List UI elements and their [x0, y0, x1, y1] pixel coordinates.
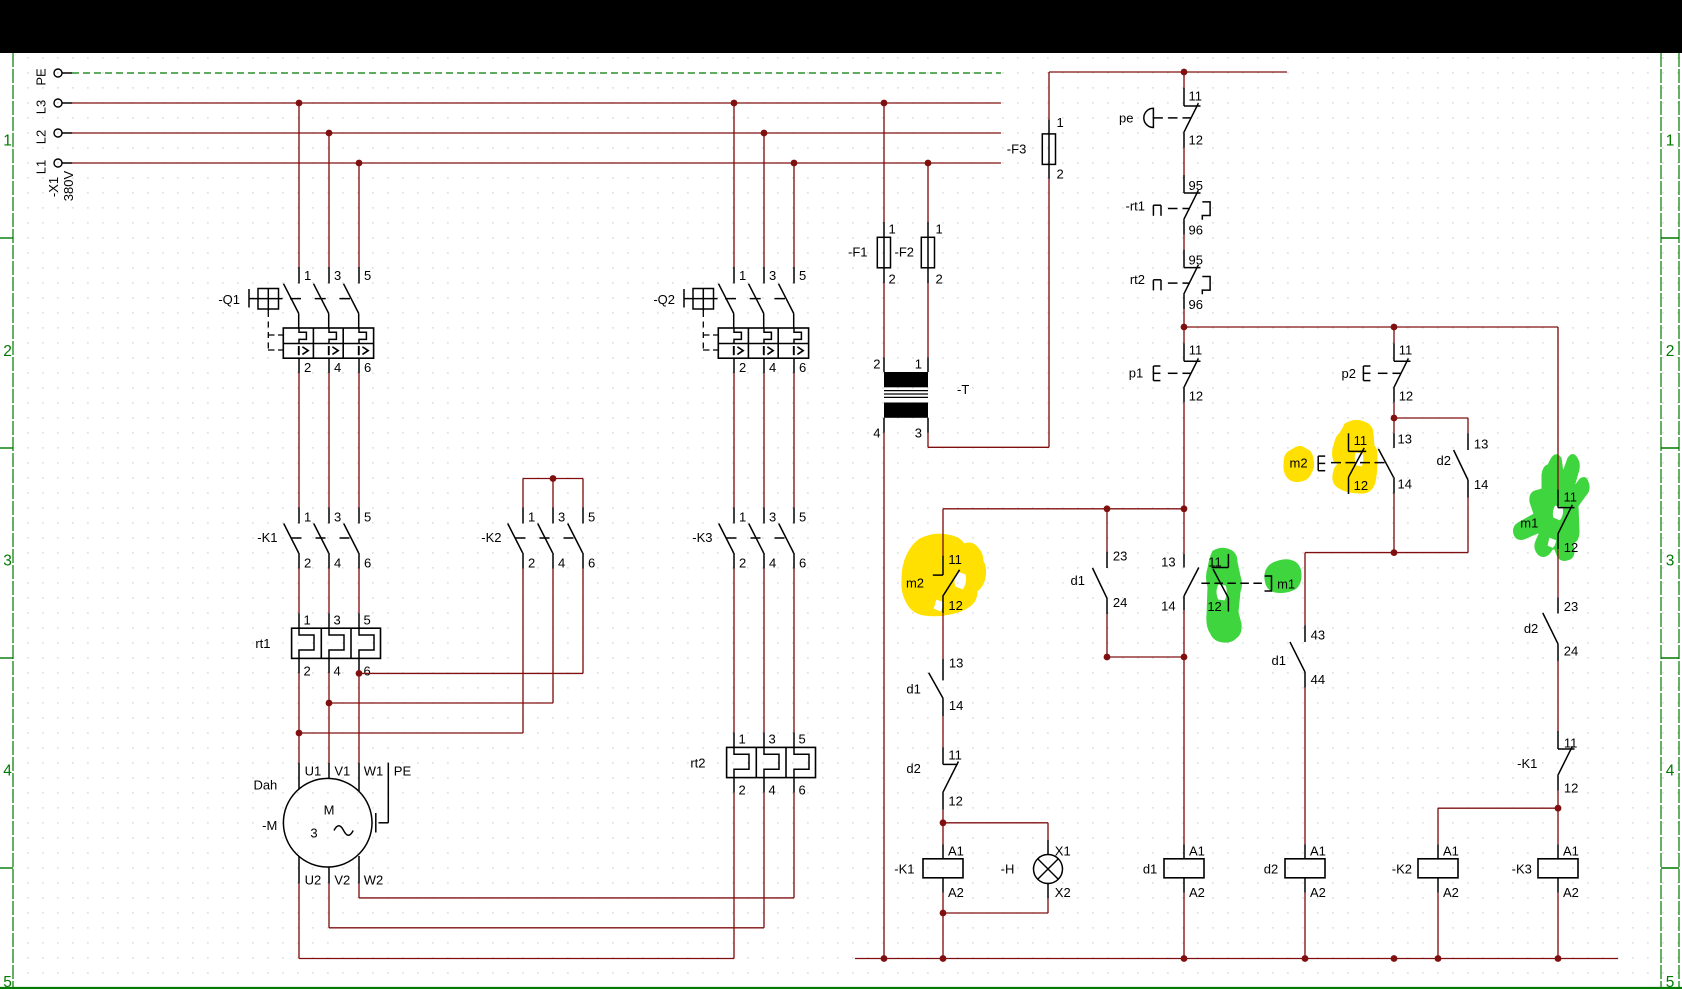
- contactor -K1 linkage (dashed): [292, 537, 352, 539]
- svg-text:W1: W1: [364, 764, 384, 779]
- svg-text:3: 3: [334, 268, 341, 283]
- svg-text:4: 4: [334, 556, 341, 571]
- breaker -Q2 thermal element: [764, 328, 771, 344]
- wire V2 to rt2-4: [328, 884, 330, 928]
- svg-text:PE: PE: [34, 68, 49, 86]
- contactor -K3 main contact 1-2: [733, 508, 735, 524]
- svg-text:1: 1: [1666, 132, 1675, 149]
- overload rt1 heater element pole 1-2: [298, 613, 300, 628]
- m2 linkage dashes: [1331, 462, 1386, 464]
- svg-text:2: 2: [304, 556, 311, 571]
- node m2-14 / d2-14: [1391, 549, 1398, 556]
- svg-text:13: 13: [1398, 432, 1412, 447]
- breaker -Q1 pole contact 5-6: [358, 267, 360, 284]
- breaker -Q1 trip linkage (dash-dot): [267, 311, 269, 350]
- node K1-A1 / lamp: [940, 819, 947, 826]
- svg-text:43: 43: [1311, 627, 1325, 642]
- wire m2-14 down: [1393, 494, 1395, 553]
- right border line (green dashed): [1678, 53, 1680, 988]
- svg-text:13: 13: [1161, 555, 1175, 570]
- svg-text:5: 5: [3, 974, 12, 989]
- node rt1-6 / K2-6: [356, 670, 363, 677]
- node 0V bus x=943: [940, 955, 947, 962]
- svg-text:23: 23: [1113, 549, 1127, 564]
- svg-text:rt2: rt2: [690, 755, 705, 770]
- fuse F3: [1048, 119, 1050, 178]
- highlighter green blob over m1 label (middle area): [1265, 560, 1301, 593]
- svg-text:12: 12: [1189, 133, 1203, 148]
- node control bus / p2: [1391, 324, 1398, 331]
- breaker -Q1 pole bottom tick: [328, 358, 330, 373]
- contactor -K2 main contact 1-2: [522, 508, 524, 524]
- contactor -K2 linkage (dashed): [516, 537, 576, 539]
- breaker -Q2 pole contact 3-4: [763, 267, 765, 284]
- wire F2 to transformer: [927, 283, 929, 357]
- wire L2 to Q2 pole3: [763, 133, 765, 267]
- wire bus corner down: [1557, 327, 1559, 490]
- contactor coil -K1: [942, 845, 944, 860]
- svg-text:1: 1: [915, 357, 922, 372]
- svg-text:-K1: -K1: [1517, 756, 1537, 771]
- breaker -Q1 magnetic element I>: [328, 346, 330, 355]
- svg-text:12: 12: [948, 598, 962, 613]
- svg-text:A1: A1: [1563, 843, 1579, 858]
- wire to d1 coil: [1183, 657, 1185, 845]
- svg-text:6: 6: [799, 556, 806, 571]
- motor M circle: [283, 778, 372, 867]
- svg-text:d1: d1: [1272, 653, 1286, 668]
- wires Q1 to K1: [298, 373, 300, 508]
- svg-text:A1: A1: [1310, 843, 1326, 858]
- contactor -K1 main contact 3-4: [328, 508, 330, 524]
- left zone tick y=448: [0, 447, 13, 449]
- svg-text:44: 44: [1311, 672, 1325, 687]
- svg-text:2: 2: [3, 343, 12, 360]
- aux contact d2 NO 23-24: [1557, 597, 1559, 613]
- breaker -Q2 overload block: [718, 328, 808, 358]
- overload rt1 heater element pole 5-6: [358, 613, 360, 628]
- contactor coil -K3: [1557, 845, 1559, 860]
- svg-text:14: 14: [1398, 477, 1412, 492]
- svg-text:U1: U1: [305, 764, 322, 779]
- wire d2-24 to K1 NC: [1557, 661, 1559, 731]
- svg-text:12: 12: [1564, 540, 1578, 555]
- svg-text:1: 1: [3, 132, 12, 149]
- left zone tick y=868: [0, 867, 13, 869]
- svg-text:3: 3: [769, 732, 776, 747]
- wire to m2 NO: [1393, 418, 1395, 433]
- motor terminal W1: [358, 763, 360, 791]
- svg-text:4: 4: [1666, 763, 1675, 780]
- p1 actuator: [1152, 366, 1154, 381]
- wire K1-A2 to lamp X2: [943, 912, 1048, 914]
- rail L2: [72, 132, 1001, 134]
- left margin line (green dashed): [12, 53, 14, 988]
- selector m1 NC contact 11-12 (right, highlighted): [1557, 490, 1559, 508]
- breaker -Q2 pole bottom tick: [733, 358, 735, 373]
- wire to m1 NO: [1183, 509, 1185, 554]
- indicator lamp -H: [1047, 840, 1049, 855]
- m1 linkage dashes: [1201, 582, 1266, 584]
- terminal circle L2: [54, 129, 62, 137]
- svg-text:m2: m2: [906, 576, 924, 591]
- node K1-A2 / lamp X2: [940, 910, 947, 917]
- svg-text:1: 1: [304, 510, 311, 525]
- svg-text:A2: A2: [1443, 885, 1459, 900]
- svg-text:4: 4: [769, 556, 776, 571]
- node L2/Q2: [761, 130, 768, 137]
- breaker -Q1 operator: [248, 289, 250, 308]
- m2 actuator E: [1317, 456, 1319, 471]
- node p1/m2-branch: [1181, 505, 1188, 512]
- transformer T secondary: [884, 403, 928, 418]
- svg-text:4: 4: [334, 664, 341, 679]
- svg-text:1: 1: [739, 268, 746, 283]
- breaker -Q1 pole linkage (dashed): [290, 298, 350, 300]
- wire d1-44 to d2 coil: [1304, 688, 1306, 845]
- motor wave symbol: [334, 826, 353, 836]
- node 0V bus x=1558: [1555, 955, 1562, 962]
- node L1/Q2: [791, 160, 798, 167]
- wire d1-24 to join: [1106, 614, 1108, 657]
- svg-text:12: 12: [948, 794, 962, 809]
- wire m1-12 to d2-23: [1557, 549, 1559, 597]
- motor terminal U2: [298, 856, 300, 884]
- wire rt2-2 down: [733, 793, 735, 959]
- svg-text:-F1: -F1: [848, 245, 868, 260]
- svg-text:4: 4: [3, 763, 12, 780]
- selector m2 NC contact 11-12 (highlighted): [942, 556, 944, 576]
- svg-text:d2: d2: [1264, 862, 1278, 877]
- node L3/F1: [881, 100, 888, 107]
- svg-text:95: 95: [1189, 252, 1203, 267]
- pushbutton p2 NC contact 11-12: [1393, 343, 1395, 361]
- emergency stop pe NC contact 11-12: [1183, 88, 1185, 106]
- wire rt1 to rt2 contact: [1183, 235, 1185, 250]
- breaker -Q2 thermal element: [794, 328, 801, 344]
- svg-text:m1: m1: [1277, 577, 1295, 592]
- svg-text:96: 96: [1189, 297, 1203, 312]
- breaker -Q2 magnetic element I>: [733, 346, 735, 355]
- node 0V bus x=1394: [1391, 955, 1398, 962]
- selector m2 NO contact 13-14: [1393, 433, 1395, 448]
- svg-text:11: 11: [948, 748, 962, 763]
- svg-text:d1: d1: [906, 682, 920, 697]
- node L3/Q2: [731, 100, 738, 107]
- contactor -K3 main contact 5-6: [793, 508, 795, 524]
- contactor coil -K2: [1437, 845, 1439, 860]
- wire transformer-3 to F3: [927, 433, 929, 448]
- terminal circle L1: [54, 159, 62, 167]
- overload relay rt1 block: [292, 628, 381, 658]
- contactor coil d2: [1304, 845, 1306, 860]
- svg-text:3: 3: [769, 510, 776, 525]
- svg-text:12: 12: [1399, 389, 1413, 404]
- svg-text:2: 2: [739, 360, 746, 375]
- svg-text:2: 2: [889, 272, 896, 287]
- aux contact d1 NO 43-44: [1304, 625, 1306, 642]
- rt2 thermal actuator: [1152, 280, 1154, 291]
- wire join: [1107, 656, 1184, 658]
- svg-text:380V: 380V: [61, 170, 76, 201]
- aux contact d2 NO 13-14: [1467, 433, 1469, 450]
- svg-text:11: 11: [948, 552, 962, 567]
- node join / d1 coil chain: [1181, 654, 1188, 661]
- svg-text:3: 3: [1666, 553, 1675, 570]
- svg-text:-M: -M: [262, 818, 277, 833]
- wire L3 to Q2 pole1: [733, 103, 735, 267]
- wire L1 to Q2 pole5: [793, 163, 795, 267]
- svg-text:A2: A2: [948, 885, 964, 900]
- overload rt2 NC contact 95-96: [1183, 250, 1185, 268]
- left zone tick y=658: [0, 657, 13, 659]
- right zone tick y=238: [1661, 237, 1679, 239]
- svg-text:5: 5: [799, 732, 806, 747]
- svg-text:13: 13: [949, 655, 963, 670]
- svg-text:5: 5: [1666, 974, 1675, 989]
- selector m1 NO contact 13-14: [1183, 554, 1185, 568]
- top black bar: [0, 0, 1682, 53]
- wires K2 bus to poles: [522, 479, 524, 508]
- svg-text:11: 11: [1399, 343, 1413, 358]
- rail L3: [72, 102, 1001, 104]
- svg-text:11: 11: [1189, 343, 1203, 358]
- svg-text:-K3: -K3: [692, 530, 712, 545]
- node join d1-24: [1104, 654, 1111, 661]
- motor terminal U1: [298, 763, 300, 790]
- svg-text:3: 3: [310, 825, 317, 840]
- wires K1 to rt1: [298, 569, 300, 614]
- node control rail / pe chain: [1181, 69, 1188, 76]
- wire bus to p2: [1393, 327, 1395, 343]
- svg-text:96: 96: [1189, 223, 1203, 238]
- svg-text:2: 2: [1057, 166, 1064, 181]
- svg-text:2: 2: [739, 556, 746, 571]
- wire d2 to K1 coil: [942, 810, 944, 845]
- contactor -K1 main contact 5-6: [358, 508, 360, 524]
- svg-text:4: 4: [769, 783, 776, 798]
- svg-text:X1: X1: [1055, 843, 1071, 858]
- breaker -Q1 thermal element: [299, 328, 306, 344]
- wire rt2-4 down: [763, 793, 765, 928]
- svg-text:d2: d2: [906, 761, 920, 776]
- svg-text:6: 6: [588, 556, 595, 571]
- right margin line (green dashed): [1660, 53, 1662, 988]
- node L1/F2: [925, 160, 932, 167]
- svg-text:95: 95: [1189, 178, 1203, 193]
- svg-text:-F2: -F2: [895, 245, 915, 260]
- breaker -Q1 pole bottom tick: [298, 358, 300, 373]
- interlock -K1 NC contact 11-12: [1557, 731, 1559, 749]
- fuse F1: [883, 222, 885, 283]
- highlighter green blob over m1 NC contact (right column): [1514, 455, 1590, 561]
- svg-text:U2: U2: [305, 872, 322, 887]
- aux contact d1 NO 13-14: [942, 659, 944, 680]
- node 0V bus x=884: [881, 955, 888, 962]
- wire p2-12 to d2-13: [1394, 417, 1468, 419]
- overload rt2 heater element pole 5-6: [793, 732, 795, 747]
- wire L3 to F1: [883, 103, 885, 222]
- svg-text:1: 1: [739, 732, 746, 747]
- pushbutton p1 NC contact 11-12: [1183, 343, 1185, 361]
- transformer T core: [884, 390, 928, 392]
- svg-text:6: 6: [364, 664, 371, 679]
- svg-text:1: 1: [936, 222, 943, 237]
- highlighter yellow blob over m2 NC contact (upper area): [1333, 420, 1378, 493]
- terminal circle L3: [54, 99, 62, 107]
- svg-text:1: 1: [304, 613, 311, 628]
- svg-text:2: 2: [528, 556, 535, 571]
- svg-text:L1: L1: [34, 160, 49, 174]
- svg-text:L2: L2: [34, 130, 49, 144]
- breaker -Q1 pole contact 1-2: [298, 267, 300, 284]
- overload rt1 NC contact 95-96: [1183, 175, 1185, 193]
- wire F3 to control rail: [1048, 72, 1050, 119]
- svg-text:-Q2: -Q2: [653, 292, 675, 307]
- wire L1 to Q1 pole5: [358, 163, 360, 267]
- svg-text:3: 3: [3, 553, 12, 570]
- svg-text:X2: X2: [1055, 885, 1071, 900]
- svg-text:A2: A2: [1310, 885, 1326, 900]
- svg-text:-H: -H: [1001, 862, 1015, 877]
- node rt1-2 / K2-2: [296, 730, 303, 737]
- svg-text:6: 6: [799, 360, 806, 375]
- breaker -Q1 overload block: [283, 328, 373, 358]
- svg-text:4: 4: [334, 360, 341, 375]
- svg-text:-X1: -X1: [46, 177, 61, 197]
- svg-text:A2: A2: [1189, 885, 1205, 900]
- node p2-12: [1391, 415, 1398, 422]
- wires to motor U1 V1 W1: [358, 673, 360, 762]
- contactor K2 star-point bus: [523, 478, 583, 480]
- svg-text:1: 1: [739, 510, 746, 525]
- bottom border line (green): [0, 987, 1682, 989]
- svg-text:-rt1: -rt1: [1126, 199, 1146, 214]
- m1 actuator bracket: [1265, 576, 1272, 591]
- wire L1 to F2: [927, 163, 929, 222]
- wire to m2 NC: [942, 509, 944, 556]
- svg-text:-K3: -K3: [1512, 862, 1532, 877]
- svg-text:2: 2: [304, 360, 311, 375]
- svg-text:12: 12: [1207, 599, 1221, 614]
- svg-text:4: 4: [873, 425, 880, 440]
- svg-text:14: 14: [1161, 599, 1175, 614]
- wire to lamp X1: [943, 822, 1048, 824]
- motor terminal V1: [328, 763, 330, 779]
- node control bus left: [1181, 324, 1188, 331]
- svg-text:A1: A1: [1443, 843, 1459, 858]
- breaker -Q2 pole bottom tick: [763, 358, 765, 373]
- pe linkage dash: [1168, 117, 1177, 119]
- svg-text:-K2: -K2: [481, 530, 501, 545]
- svg-text:2: 2: [873, 357, 880, 372]
- aux contact d2 NC 11-12: [942, 748, 944, 765]
- wire rt1-6 to K2-6: [359, 672, 583, 674]
- svg-text:5: 5: [799, 268, 806, 283]
- svg-text:d1: d1: [1071, 573, 1085, 588]
- svg-text:11: 11: [1189, 88, 1203, 103]
- svg-text:A1: A1: [1189, 843, 1205, 858]
- svg-text:-T: -T: [957, 382, 969, 397]
- breaker -Q2 pole contact 5-6: [793, 267, 795, 284]
- svg-text:13: 13: [1474, 437, 1488, 452]
- p2 actuator: [1362, 366, 1364, 381]
- selector m1 NC contact 11-12 (highlighted, unwired): [1227, 554, 1229, 568]
- contactor -K3 linkage (dashed): [727, 537, 787, 539]
- wire rt1-2 to K2-2: [298, 673, 300, 733]
- wire L3 to Q1 pole1: [298, 103, 300, 267]
- contactor -K1 main contact 1-2: [298, 508, 300, 524]
- svg-text:2: 2: [304, 664, 311, 679]
- control 0V bus: [855, 958, 1618, 960]
- node 0V bus x=1305: [1302, 955, 1309, 962]
- svg-text:12: 12: [1189, 389, 1203, 404]
- svg-text:-Q1: -Q1: [218, 292, 240, 307]
- breaker -Q2 magnetic element I>: [793, 346, 795, 355]
- highlighter yellow blob over m2 coil-label (upper area): [1284, 447, 1314, 482]
- svg-text:3: 3: [769, 268, 776, 283]
- svg-text:PE: PE: [394, 764, 412, 779]
- wire F1 to transformer: [883, 283, 885, 357]
- breaker -Q1 magnetic element I>: [298, 346, 300, 355]
- svg-text:11: 11: [1354, 433, 1368, 448]
- svg-text:2: 2: [739, 783, 746, 798]
- svg-text:-F3: -F3: [1007, 141, 1027, 156]
- breaker -Q1 pole bottom tick: [358, 358, 360, 373]
- svg-text:1: 1: [889, 222, 896, 237]
- breaker -Q2 trip linkage (dash-dot): [702, 311, 704, 350]
- overload rt2 heater element pole 3-4: [763, 732, 765, 747]
- breaker -Q1 pole contact 3-4: [328, 267, 330, 284]
- svg-text:rt2: rt2: [1130, 272, 1145, 287]
- aux contact d1 NO 23-24: [1106, 552, 1108, 568]
- highlighter yellow blob over m2 NC contact (lower area): [902, 534, 986, 616]
- node L2/Q1: [326, 130, 333, 137]
- wire d2-14 down: [1467, 498, 1469, 553]
- node 0V bus x=1184: [1181, 955, 1188, 962]
- node K2/K3 coils: [1555, 805, 1562, 812]
- svg-text:5: 5: [364, 268, 371, 283]
- svg-text:12: 12: [1354, 478, 1368, 493]
- svg-text:14: 14: [949, 698, 963, 713]
- svg-text:24: 24: [1564, 644, 1578, 659]
- breaker -Q2 operator: [683, 289, 685, 308]
- wire m2 to d1: [942, 613, 944, 659]
- wire transformer-4 to 0V bus: [883, 433, 885, 959]
- wire rt1-4 to K2-4: [328, 673, 330, 703]
- wire rt2 to control bus: [1183, 309, 1185, 327]
- svg-text:p1: p1: [1129, 365, 1143, 380]
- svg-text:rt1: rt1: [255, 636, 270, 651]
- motor terminal V2: [328, 867, 330, 884]
- rt1 thermal actuator: [1152, 205, 1154, 216]
- pe mushroom actuator: [1144, 108, 1154, 127]
- rail PE (green dashed): [72, 72, 1001, 74]
- svg-text:24: 24: [1113, 595, 1127, 610]
- svg-text:6: 6: [799, 783, 806, 798]
- terminal circle PE: [54, 69, 62, 77]
- wire pe to rt1 contact: [1183, 148, 1185, 176]
- svg-text:-K1: -K1: [257, 530, 277, 545]
- wire d1 to d2 NC: [942, 716, 944, 748]
- svg-text:W2: W2: [364, 872, 384, 887]
- svg-text:M: M: [324, 803, 335, 818]
- wire L2 to Q1 pole3: [328, 133, 330, 267]
- svg-text:6: 6: [364, 556, 371, 571]
- control bus: [1184, 326, 1558, 328]
- wire m1-14 down: [1183, 610, 1185, 657]
- svg-text:1: 1: [1057, 115, 1064, 130]
